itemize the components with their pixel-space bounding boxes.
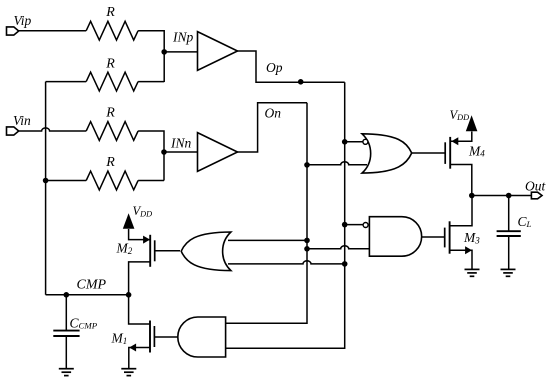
junction dot line B to OR1 top input — [342, 139, 348, 145]
wire M4 drain to Out node — [450, 165, 472, 196]
transistor M4 source arrow — [451, 137, 458, 145]
wire R3 right end to node INn — [138, 131, 164, 181]
svg-text:Out: Out — [525, 179, 546, 194]
transistor M2 source arrow — [143, 236, 150, 244]
junction dot line A to OR2 top input — [304, 238, 310, 244]
svg-text:R: R — [105, 155, 115, 170]
wire M4 source to VDD — [450, 132, 472, 142]
wire OR2 top input to line A — [228, 239, 307, 241]
bubble on OR U3 top input — [363, 139, 368, 144]
transistor M4 (PMOS) gate bar — [444, 142, 446, 164]
wire CMP node to capacitor CCMP — [65, 295, 67, 330]
resistor R3 — [86, 122, 138, 141]
OR gate U3 (top, with bubbled input) — [362, 134, 412, 173]
capacitor CL plates — [497, 231, 521, 236]
wire line A vertical (On) down to AND gate top input — [226, 103, 307, 324]
transistor M3 source arrow — [465, 246, 472, 254]
transistor M3 (NMOS) gate bar — [444, 228, 446, 248]
wire NAND U4 output to M3 gate — [422, 236, 445, 238]
NAND gate U4 (AND with bubbled input) — [369, 217, 421, 257]
wire capacitor CCMP to ground — [65, 336, 67, 368]
transistor M3 channel bar — [449, 221, 451, 253]
wire resistor R4 right end to node INn — [138, 180, 164, 182]
junction dot R4 on feedback line — [43, 178, 49, 184]
wire Op net: buffer U1 output down and right into vertical line B — [238, 51, 345, 82]
transistor M1 channel bar — [149, 321, 151, 353]
wire OR2 output to M2 gate — [155, 250, 180, 252]
ground at M1 source — [121, 369, 136, 376]
wire capacitor CL to ground — [508, 236, 510, 269]
wire feedback vertical line from R2 to CMP — [45, 82, 47, 295]
wire OR2 bottom input to line B (hop over line A) — [228, 261, 345, 264]
wire OR1 output to M4 gate — [410, 152, 445, 154]
ground at M3 source — [465, 269, 480, 276]
wire AND U5 output to M1 gate — [154, 336, 177, 338]
wire Vin terminal to resistor R3 (hop over feedback line) — [19, 128, 87, 131]
transistor M1 source arrow — [129, 344, 136, 352]
wire line B vertical (Op) down to AND gate bottom input — [226, 82, 345, 348]
buffer U2 (INn) — [198, 133, 238, 172]
bubble on NAND U4 top input — [363, 223, 368, 228]
wire Out node to Out terminal — [472, 195, 532, 197]
VDD symbol at M2 — [123, 213, 135, 228]
transistor M4 channel bar — [449, 137, 451, 169]
wire resistor R4 left end to feedback line — [46, 180, 87, 182]
junction dot line B to NAND input — [342, 222, 348, 228]
junction dot CL top — [506, 193, 512, 199]
node Op junction dot — [298, 79, 304, 85]
resistor R2 — [86, 72, 138, 91]
node INn junction dot — [161, 149, 167, 155]
svg-text:R: R — [105, 56, 115, 71]
resistor R4 — [86, 171, 138, 190]
AND gate U6 (mirrored, drives M1) — [178, 317, 226, 357]
svg-text:Vin: Vin — [13, 113, 31, 128]
junction dot CMP to CCMP — [64, 292, 70, 298]
wire M2 source to VDD — [129, 229, 151, 240]
wire resistor R2 left end to feedback line — [46, 81, 87, 83]
wire node INp to buffer U1 input — [164, 51, 197, 53]
wire R1 right end to node INp — [138, 31, 164, 82]
port Vin — [7, 127, 19, 135]
wire line B to NAND U4 bubbled input — [345, 224, 364, 226]
svg-text:On: On — [265, 105, 282, 120]
wire M3 drain to Out node — [450, 196, 472, 226]
junction dot M4 drain Out node — [469, 193, 475, 199]
wire line A to OR1 bottom input (hop over line B) — [307, 162, 367, 165]
buffer U1 (INp) — [198, 32, 238, 71]
wire node INn to buffer U2 input — [164, 151, 198, 153]
svg-text:R: R — [105, 106, 115, 121]
transistor M2 (PMOS) gate bar — [154, 240, 156, 261]
wire Vip terminal to resistor R1 — [19, 30, 87, 32]
svg-text:R: R — [105, 5, 115, 20]
junction dot line A to NAND bottom input — [304, 246, 310, 252]
svg-text:Vip: Vip — [14, 13, 32, 28]
transistor M2 channel bar — [149, 235, 151, 267]
wire line A to NAND U4 bottom input (hop over line B) — [307, 246, 369, 249]
junction dot CMP to M1/M2 — [126, 292, 132, 298]
svg-text:Op: Op — [266, 60, 283, 75]
wire line B to OR1 bubbled input — [345, 141, 364, 143]
svg-text:INp: INp — [172, 30, 194, 45]
junction dot line B to OR2 bottom input — [342, 261, 348, 267]
wire resistor R2 right end to node INp — [138, 81, 164, 83]
wire M2 drain down through CMP node to M1 drain — [129, 262, 151, 324]
wire M1 source to ground — [129, 348, 150, 369]
ground at CL — [501, 269, 516, 276]
wire CMP horizontal line — [46, 294, 129, 296]
ground at CCMP — [59, 369, 74, 376]
junction dot line A to OR1 bottom input — [304, 162, 310, 168]
port Vip — [7, 27, 19, 35]
VDD symbol at M4 — [466, 115, 478, 131]
node INp junction dot — [161, 49, 167, 55]
wire Out node to capacitor CL — [508, 196, 510, 232]
capacitor CCMP plates — [53, 331, 79, 336]
resistor R1 — [86, 21, 138, 40]
transistor M1 (NMOS) gate bar — [153, 326, 155, 347]
svg-text:INn: INn — [170, 136, 192, 151]
wire M3 source to ground — [450, 250, 472, 269]
wire On net: buffer U2 output up and right into vertical line A — [238, 103, 308, 152]
port Out — [531, 192, 542, 199]
svg-text:CMP: CMP — [77, 278, 107, 293]
OR gate U5 (mirrored, drives M2) — [181, 232, 231, 271]
